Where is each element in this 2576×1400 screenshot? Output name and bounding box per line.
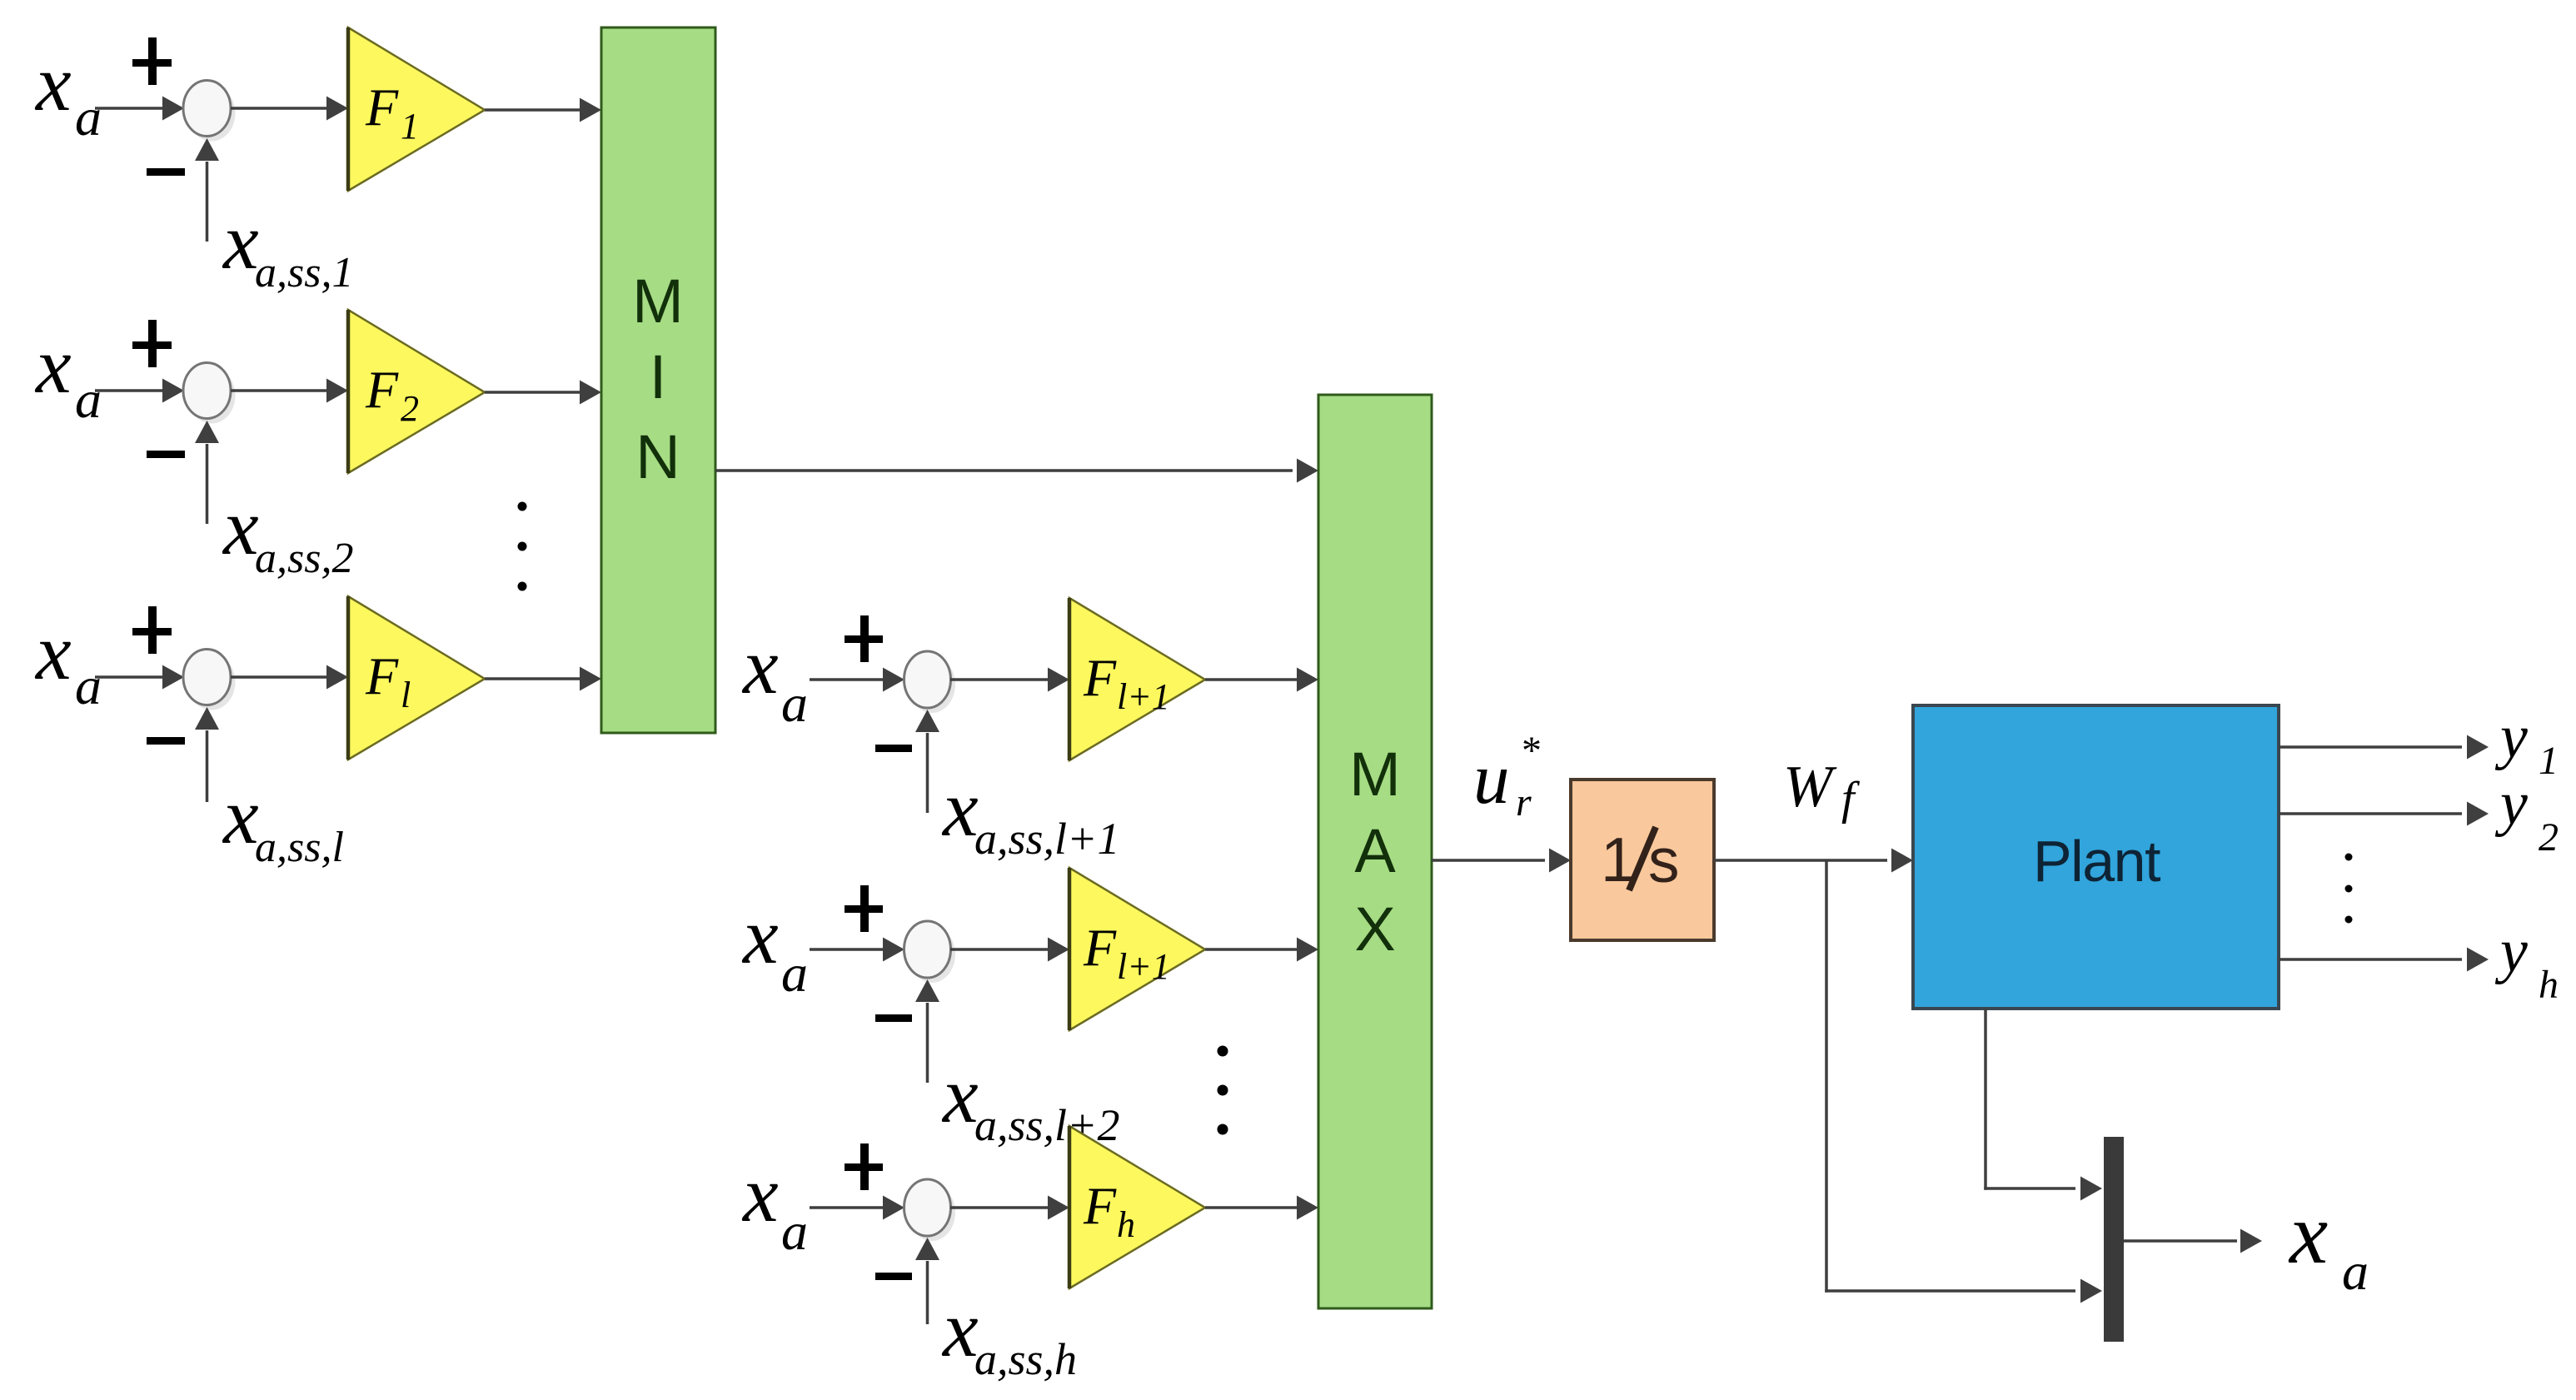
node x_a input label (left row 3) [34, 607, 102, 715]
ellipsis dots between middle rows B and C [1218, 1046, 1228, 1135]
minus sign at summing junction S1 [147, 168, 185, 176]
wire W_f branch down to mux [1825, 860, 2102, 1303]
node x_a input label (left row 1) [34, 38, 102, 147]
svg-text:a,ss,l+1: a,ss,l+1 [974, 814, 1119, 864]
minus sign at summing junction SA [875, 745, 912, 752]
svg-text:N: N [635, 422, 680, 491]
wire mux output x_a [2124, 1229, 2262, 1253]
wire SC to gain Fh [950, 1196, 1069, 1220]
svg-text:l+1: l+1 [1117, 676, 1170, 717]
svg-text:a: a [781, 1202, 808, 1261]
svg-text:F: F [365, 77, 399, 137]
gain block Fl+1 (triangle, row B) [1069, 868, 1205, 1030]
wire x_a,ss,1 feedback into S1 [195, 138, 219, 242]
wire x_a,ss,l+2 feedback into SB [915, 979, 939, 1083]
plus sign at summing junction S2 [132, 320, 172, 367]
wire SA to gain Fl+1 [950, 668, 1069, 692]
plus sign at summing junction S1 [132, 37, 172, 85]
svg-text:a,ss,2: a,ss,2 [255, 535, 353, 582]
svg-text:x: x [34, 607, 72, 696]
node x_a,ss,l+2 label [941, 1050, 1119, 1150]
svg-text:a: a [781, 944, 808, 1003]
svg-text:x: x [741, 1149, 779, 1238]
integrator block 1/s [1571, 780, 1714, 940]
svg-text:M: M [632, 267, 684, 336]
svg-text:1: 1 [2539, 739, 2559, 783]
wire x_a,ss,l feedback into S3 [195, 707, 219, 802]
svg-text:x: x [2288, 1186, 2328, 1282]
plus sign at summing junction SC [845, 1143, 883, 1190]
wire x_a to summing junction S2 [95, 379, 184, 403]
wire 1/s output W_f to Plant [1714, 849, 1913, 873]
summing junction S1 [183, 81, 236, 142]
wire S3 to gain Fl [231, 665, 348, 690]
svg-text:a: a [75, 370, 102, 429]
svg-text:y: y [2494, 770, 2528, 838]
wire MIN output to MAX [715, 459, 1318, 483]
wire S2 to gain F2 [231, 379, 348, 403]
svg-text:y: y [2494, 917, 2528, 985]
wire MAX output to integrator 1/s [1432, 849, 1571, 873]
node x_a,ss,h label [941, 1284, 1077, 1384]
Plant block [1913, 705, 2279, 1009]
wire x_a,ss,l+1 feedback into SA [915, 710, 939, 813]
svg-text:I: I [650, 342, 667, 411]
svg-text:x: x [741, 621, 779, 710]
node W_f label [1783, 755, 1861, 825]
wire x_a,ss,2 feedback into S2 [195, 421, 219, 524]
plus sign at summing junction S3 [132, 606, 172, 654]
summing junction SA [904, 651, 956, 713]
node x_a output label [2288, 1186, 2369, 1301]
node x_a,ss,2 label [222, 482, 353, 582]
wire SB to gain Fl+1 [950, 938, 1069, 962]
svg-text:u: u [1473, 738, 1510, 819]
minus sign at summing junction S2 [147, 451, 185, 458]
svg-text:a: a [75, 87, 102, 147]
svg-text:a,ss,l: a,ss,l [255, 824, 344, 871]
wire S1 to gain F1 [231, 97, 348, 121]
wire Plant output y_2 [2279, 802, 2489, 826]
gain block F1 (triangle) [348, 27, 485, 191]
svg-text:r: r [1516, 780, 1532, 825]
svg-text:a,ss,1: a,ss,1 [255, 249, 353, 296]
ellipsis dots between F2 and Fl rows [518, 502, 527, 591]
svg-text:F: F [1083, 918, 1117, 977]
svg-text:f: f [1841, 773, 1861, 825]
wire Plant output y_1 [2279, 735, 2489, 760]
plus sign at summing junction SA [845, 615, 883, 662]
svg-text:x: x [222, 771, 259, 860]
MAX block [1318, 395, 1432, 1308]
node y_h label [2494, 917, 2559, 1007]
node x_a input label (middle row A) [741, 621, 808, 733]
gain block Fh (triangle, row C) [1069, 1126, 1205, 1288]
node x_a,ss,l label [222, 771, 344, 871]
svg-text:l+1: l+1 [1117, 946, 1170, 987]
wire x_a to summing junction SB [810, 938, 904, 962]
wire F1 to MIN [485, 98, 601, 122]
svg-text:x: x [34, 38, 72, 127]
wire Plant output y_h [2279, 948, 2489, 972]
wire x_a to summing junction SA [810, 668, 904, 692]
svg-text:x: x [222, 482, 259, 571]
summing junction S2 [183, 363, 236, 424]
svg-text:2: 2 [401, 388, 419, 429]
minus sign at summing junction SC [875, 1273, 912, 1280]
svg-text:F: F [1083, 1176, 1117, 1235]
svg-text:Plant: Plant [2033, 829, 2160, 894]
svg-text:W: W [1783, 755, 1837, 820]
gain block Fl (triangle) [348, 596, 485, 760]
wire Fh to MAX (row C) [1205, 1196, 1318, 1220]
svg-text:X: X [1354, 894, 1395, 964]
svg-text:a: a [75, 656, 102, 715]
svg-text:F: F [365, 646, 399, 705]
node x_a input label (left row 2) [34, 321, 102, 429]
wire x_a to summing junction S1 [95, 97, 184, 121]
minus sign at summing junction S3 [147, 737, 185, 745]
svg-text:l: l [401, 675, 411, 715]
node x_a,ss,1 label [222, 197, 353, 296]
svg-text:y: y [2494, 703, 2528, 771]
plus sign at summing junction SB [845, 885, 883, 932]
node x_a,ss,l+1 label [941, 764, 1119, 864]
svg-text:x: x [222, 197, 259, 286]
svg-text:F: F [365, 360, 399, 419]
node y_2 label [2494, 770, 2559, 859]
node x_a input label (middle row C) [741, 1149, 808, 1261]
wire Fl+1 to MAX (row A) [1205, 668, 1318, 692]
gain block Fl+1 (triangle, row A) [1069, 598, 1205, 760]
svg-text:A: A [1354, 816, 1396, 885]
svg-text:x: x [941, 1050, 979, 1139]
summing junction S3 [183, 650, 236, 710]
ellipsis dots between y_2 and y_h [2345, 854, 2353, 924]
svg-text:x: x [34, 321, 72, 410]
svg-text:x: x [741, 891, 779, 980]
wire Fl+1 to MAX (row B) [1205, 938, 1318, 962]
svg-text:h: h [2539, 963, 2559, 1007]
summing junction SC [904, 1179, 956, 1241]
svg-text:x: x [941, 1284, 979, 1373]
node x_a input label (middle row B) [741, 891, 808, 1003]
node u_r^* label [1473, 729, 1542, 825]
gain block F2 (triangle) [348, 310, 485, 473]
svg-text:a: a [2342, 1242, 2369, 1301]
svg-text:F: F [1083, 648, 1117, 707]
svg-text:1: 1 [401, 106, 419, 147]
svg-text:2: 2 [2539, 815, 2559, 859]
wire x_a to summing junction SC [810, 1196, 904, 1220]
svg-text:a: a [781, 674, 808, 733]
minus sign at summing junction SB [875, 1014, 912, 1022]
svg-text:s: s [1648, 825, 1680, 895]
svg-text:x: x [941, 764, 979, 853]
svg-text:h: h [1117, 1204, 1135, 1245]
wire x_a to summing junction S3 [95, 665, 184, 690]
svg-text:M: M [1349, 740, 1401, 809]
svg-text:*: * [1522, 729, 1542, 773]
MIN block [601, 27, 715, 733]
svg-text:a,ss,h: a,ss,h [974, 1334, 1077, 1384]
wire Fl to MIN [485, 667, 601, 691]
summing junction SB [904, 921, 956, 983]
wire x_a,ss,h feedback into SC [915, 1238, 939, 1324]
node y_1 label [2494, 703, 2559, 783]
wire F2 to MIN [485, 381, 601, 405]
mux bar (state selector) [2104, 1137, 2124, 1342]
wire Plant bottom output down to mux [1984, 1009, 2102, 1201]
